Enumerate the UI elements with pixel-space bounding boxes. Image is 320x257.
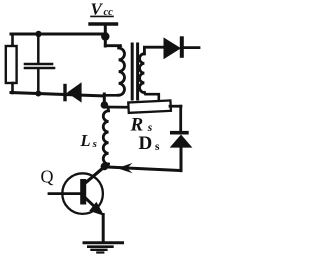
svg-text:Q: Q	[41, 166, 54, 186]
svg-text:s: s	[155, 141, 160, 153]
svg-text:D: D	[139, 133, 153, 154]
svg-text:s: s	[92, 138, 97, 150]
svg-text:cc: cc	[104, 7, 114, 18]
svg-text:V: V	[91, 0, 104, 18]
svg-text:L: L	[80, 131, 91, 150]
